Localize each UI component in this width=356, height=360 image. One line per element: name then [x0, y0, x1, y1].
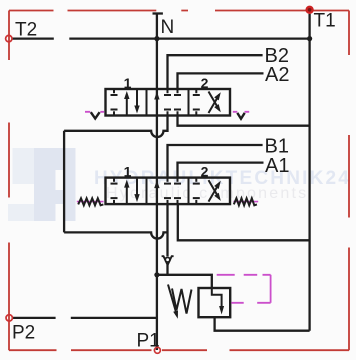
svg-text:P2: P2: [12, 323, 35, 344]
svg-text:2: 2: [201, 164, 209, 180]
svg-text:1: 1: [124, 75, 132, 91]
svg-text:1: 1: [124, 164, 132, 180]
svg-text:T2: T2: [15, 20, 37, 41]
svg-text:T1: T1: [314, 11, 336, 32]
svg-text:N: N: [161, 17, 175, 38]
svg-text:2: 2: [201, 75, 209, 91]
svg-text:A2: A2: [265, 64, 289, 86]
svg-text:P1: P1: [137, 331, 160, 352]
svg-text:A1: A1: [265, 155, 289, 177]
